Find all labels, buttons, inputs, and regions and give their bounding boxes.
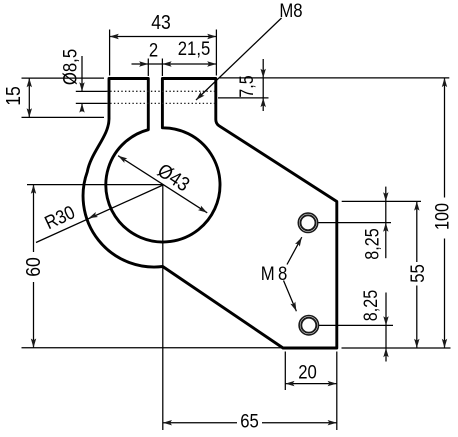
lower threaded hole (299, 316, 318, 335)
ext bottom right (342, 347, 451, 349)
svg-text:7,5: 7,5 (236, 75, 258, 98)
upper threaded hole (298, 213, 317, 232)
dim 8,25 lower line (385, 293, 387, 362)
arrows dim 100 (442, 78, 447, 87)
svg-text:21,5: 21,5 (178, 38, 211, 59)
leader M8 top (196, 18, 282, 100)
svg-text:15: 15 (2, 86, 24, 106)
ext lower hole (319, 324, 394, 326)
dim dia8,5 line (81, 56, 83, 112)
leader R30 (36, 185, 163, 243)
arrow leader lower hole (290, 302, 299, 313)
arrow leader upper hole (295, 236, 304, 247)
svg-text:8,25: 8,25 (361, 228, 383, 260)
arrows dim 7,5 (261, 69, 266, 78)
dim 55 line (416, 201, 418, 348)
dim dia43 arrow line (118, 156, 207, 213)
arrows dia43 (117, 153, 128, 163)
dim 8,25 upper line (385, 187, 387, 259)
arrows dim 8,25 lower (383, 316, 388, 325)
ext corner right (342, 200, 421, 202)
arrows dim 43 (110, 34, 119, 39)
svg-text:100: 100 (431, 203, 453, 230)
svg-text:55: 55 (407, 264, 428, 283)
svg-text:2: 2 (149, 39, 158, 60)
arrows dim 8,25 upper (383, 192, 388, 201)
dim 15 line (28, 78, 30, 117)
svg-text:60: 60 (22, 257, 44, 277)
hidden thread line lower (107, 102, 216, 104)
ext slot right (161, 59, 163, 77)
arrows dim 55 (414, 201, 419, 210)
centerline vertical (162, 185, 164, 430)
arrows dim dia8,5 (79, 82, 84, 91)
arrow leader M8 top (194, 92, 204, 102)
leader M8 upper hole (287, 237, 302, 264)
ext 43/21,5 right (215, 30, 217, 76)
ext right edge down (336, 352, 338, 431)
svg-text:65: 65 (240, 410, 259, 431)
svg-text:M 8: M 8 (261, 263, 288, 284)
ext 7,5 bottom (218, 97, 269, 99)
svg-text:M8: M8 (279, 0, 302, 21)
ext bottom left (22, 347, 284, 349)
dim 60 line (33, 185, 35, 348)
ext 20 left (284, 352, 286, 391)
arrows dim 65 (163, 420, 172, 425)
ext 15 bottom (22, 116, 105, 118)
svg-text:20: 20 (298, 361, 317, 382)
arrow R30 (87, 212, 98, 221)
ext upper hole (318, 222, 391, 224)
ext 43 left (109, 30, 111, 76)
dim 65 line (163, 422, 337, 424)
arrows dim 20 (285, 381, 294, 386)
dim 2/21,5 line (132, 63, 217, 65)
svg-text:Ø8,5: Ø8,5 (59, 49, 80, 85)
arrows dim 15 (27, 78, 32, 87)
ext top edge left (22, 77, 105, 79)
dim 7,5 line (262, 59, 264, 111)
arrows dim 60 (31, 185, 36, 194)
leader M8 lower hole (284, 281, 297, 312)
ext center horizontal (27, 184, 163, 186)
ext hole upper left (76, 90, 107, 92)
ext slot left (147, 59, 149, 77)
svg-text:43: 43 (151, 11, 171, 33)
ext hole lower left (76, 102, 107, 104)
dim 43 line (110, 36, 217, 38)
arrows dim 2 / 21,5 (139, 61, 148, 66)
hidden thread line upper (107, 90, 216, 92)
ext top edge right long (219, 77, 449, 79)
svg-text:8,25: 8,25 (360, 290, 382, 322)
part outline with bore and clamp slot (83, 79, 337, 349)
dim 100 line (444, 78, 446, 348)
dim 20 line (285, 383, 337, 385)
